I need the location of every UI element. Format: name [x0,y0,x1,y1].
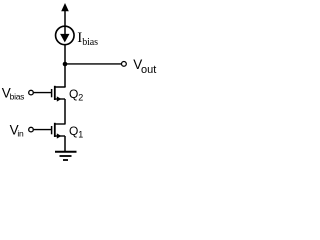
svg-text:out: out [141,64,156,76]
Q1 gate bar [51,126,53,134]
Q2 drain lead [55,86,65,89]
wire: Q1 source to ground [64,136,66,152]
wire: current source to node [64,45,66,88]
terminal V_in [29,127,34,132]
svg-text:2: 2 [78,93,83,103]
Q2 gate bar [51,89,53,97]
supply arrow (top) [61,3,69,27]
svg-text:1: 1 [78,130,83,140]
svg-text:bias: bias [82,37,98,48]
terminal V_bias [29,90,34,95]
transistor Q1 [34,123,65,139]
svg-text:Q: Q [69,87,78,101]
ground [55,152,77,160]
current source I_bias [56,26,75,45]
transistor Q2 [34,86,65,102]
Q1 channel bar [54,123,56,137]
Q1 drain lead [55,123,65,125]
Q1 gate lead [34,129,51,131]
terminal V_out [122,62,127,67]
svg-text:Q: Q [69,124,78,138]
Q1 source arrow [57,133,62,138]
svg-text:in: in [17,129,24,139]
Q1 source lead [55,135,65,137]
wire: node to V_out [65,63,122,65]
Q2 source lead [55,98,65,100]
svg-text:bias: bias [10,92,25,102]
wire: Q2 source to Q1 drain [64,99,66,125]
node junction dot [63,62,68,67]
Q2 source arrow [57,96,62,101]
Q2 channel bar [54,86,56,100]
Q2 gate lead [34,92,51,94]
